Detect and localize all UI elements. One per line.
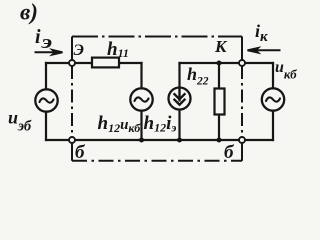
svg-text:в): в): [20, 0, 38, 25]
svg-text:б: б: [75, 142, 86, 163]
svg-text:б: б: [224, 142, 235, 163]
svg-text:э: э: [40, 31, 52, 52]
svg-text:К: К: [214, 37, 228, 56]
svg-text:Э: Э: [74, 42, 84, 59]
svg-text:i: i: [35, 26, 41, 48]
